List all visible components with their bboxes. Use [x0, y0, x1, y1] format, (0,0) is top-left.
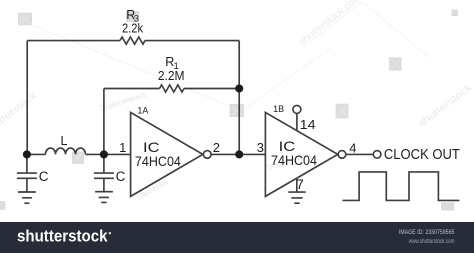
svg-text:1B: 1B: [273, 104, 284, 114]
svg-text:1A: 1A: [137, 105, 148, 115]
wire left vertical rail: [26, 41, 28, 155]
node dot R1 / R3 rail: [235, 84, 243, 92]
inductor L: [46, 148, 86, 154]
svg-text:2.2k: 2.2k: [122, 21, 143, 36]
svg-text:www.shutterstock.com: www.shutterstock.com: [408, 238, 454, 245]
svg-text:IMAGE ID: 2330759565: IMAGE ID: 2330759565: [399, 229, 455, 236]
wire right vertical rail: [238, 41, 240, 155]
capacitor C2 stem bottom: [103, 179, 105, 192]
svg-text:C: C: [39, 169, 49, 184]
capacitor C2 stem top: [103, 154, 105, 172]
wire pin 14 stem: [296, 113, 298, 131]
node dot L / C2 / R1 / gate1 input: [100, 150, 108, 158]
svg-text:shutterstock: shutterstock: [17, 227, 108, 246]
svg-text:2: 2: [213, 140, 220, 155]
svg-text:74HC04: 74HC04: [271, 152, 317, 168]
svg-text:1: 1: [119, 140, 126, 155]
pin 14 circle: [293, 105, 301, 113]
resistor R3: [120, 37, 145, 44]
wire main rail left: [27, 153, 46, 155]
resistor R1: [160, 85, 184, 92]
wire top rail right segment: [145, 40, 239, 42]
capacitor C1 plates: [17, 173, 37, 178]
node dot left rail / L / C1: [23, 150, 31, 158]
square wave waveform: [343, 172, 460, 201]
wire inductor to gate1 input: [86, 153, 131, 155]
svg-text:3: 3: [257, 140, 264, 155]
watermark lattice + squares (decorative): [32, 2, 430, 110]
op-amp U1B triangle: [265, 112, 337, 196]
ground C1: [18, 192, 36, 203]
wire top rail left segment: [27, 40, 120, 42]
wire R1 right lead: [184, 88, 239, 90]
wire pin 7 stem: [296, 178, 298, 192]
svg-text:2.2M: 2.2M: [158, 68, 185, 83]
ground C2: [95, 192, 113, 203]
capacitor C1 stem top: [26, 154, 28, 172]
svg-text:14: 14: [300, 117, 316, 132]
svg-text:4: 4: [349, 140, 356, 155]
svg-text:7: 7: [296, 177, 304, 192]
watermark diagonal texts (decorative): [0, 0, 474, 138]
wire gate1 output to gate2 input: [211, 153, 265, 155]
terminal CLOCK OUT circle: [373, 151, 381, 159]
bottom shutterstock bar (decorative): [0, 222, 474, 253]
svg-text:74HC04: 74HC04: [135, 153, 181, 169]
op-amp U1A triangle: [131, 112, 203, 196]
capacitor C2 plates: [94, 173, 114, 178]
node dot gate1 output / feedback rail: [235, 150, 243, 158]
svg-text:C: C: [116, 169, 126, 184]
ground U1B pin7: [288, 192, 305, 203]
svg-text:L: L: [61, 134, 68, 148]
svg-text:CLOCK OUT: CLOCK OUT: [384, 147, 460, 163]
wire gate2 output to terminal: [346, 153, 372, 155]
wire R1 left lead: [104, 88, 160, 90]
U1B output bubble: [338, 151, 346, 159]
U1A output bubble: [203, 151, 211, 159]
capacitor C1 stem bottom: [26, 179, 28, 192]
wire node1 vertical to R1: [103, 89, 105, 155]
